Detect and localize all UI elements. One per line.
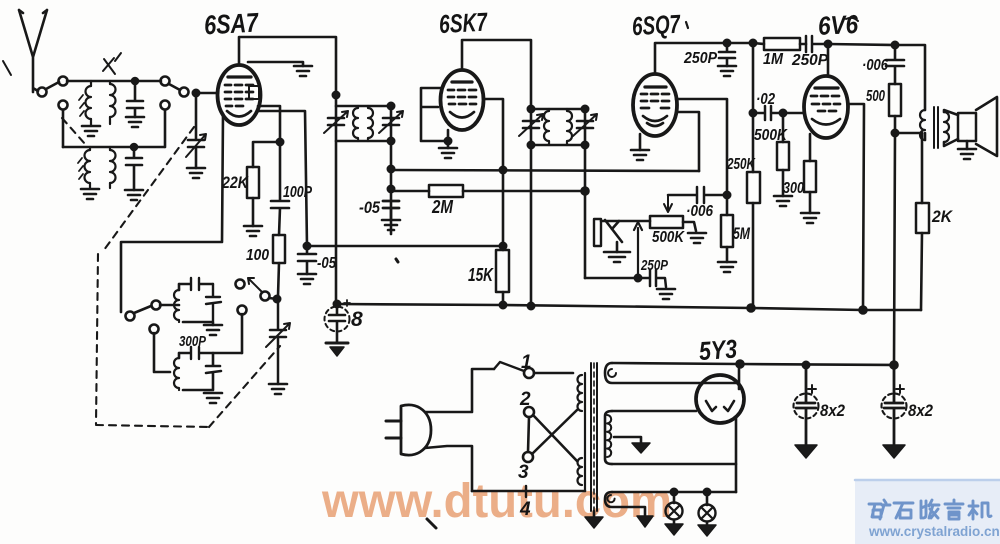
wire AVC line <box>391 170 699 171</box>
svg-text:250P: 250P <box>640 257 669 274</box>
resistor 300 cathode <box>801 134 819 223</box>
svg-text:6SA7: 6SA7 <box>203 7 260 40</box>
capacitor .05 AVC <box>298 243 316 284</box>
band terminals lower <box>59 101 170 148</box>
wire grid 6SA7 <box>196 92 218 95</box>
svg-text:8: 8 <box>351 308 363 331</box>
wire 6SK7 screen column <box>483 99 506 250</box>
6SK7 cathode ground <box>439 130 457 158</box>
capacitor 250P coupling <box>806 36 831 52</box>
logo chinese glyphs <box>869 500 991 519</box>
phase reverse switch <box>523 407 577 462</box>
crystalradio logo panel <box>855 479 1000 544</box>
wire 6V6 plate down <box>848 104 864 310</box>
svg-text:100: 100 <box>246 247 269 264</box>
capacitor 250P plate <box>718 40 736 76</box>
HV center tap ground <box>614 437 650 453</box>
osc tank 2 <box>150 325 243 404</box>
capacitor 250P volume <box>638 270 675 299</box>
wire grid return line <box>307 245 503 248</box>
svg-text:6V6: 6V6 <box>817 9 859 41</box>
svg-text:8x2: 8x2 <box>820 401 845 420</box>
capacitor .006 AVC <box>664 187 727 212</box>
antenna coil L1 <box>79 81 116 126</box>
wire 6SA7 plate to IF1 <box>239 37 336 95</box>
wire 5Y3 connections <box>736 364 739 492</box>
svg-text:300: 300 <box>783 180 804 197</box>
capacitor .05 IF1 <box>382 166 400 230</box>
6SK7 grid bracket <box>421 88 448 141</box>
ground screen 6SA7 <box>248 62 312 76</box>
transformer T4 core <box>591 363 597 511</box>
svg-text:250P: 250P <box>683 50 717 67</box>
wire primary bottom <box>472 486 585 497</box>
ground L2 <box>81 189 99 199</box>
scan tick marks <box>396 259 436 528</box>
dashed gang linkage <box>62 118 280 427</box>
resistor 250K column <box>747 40 760 308</box>
tube 6SQ7 <box>633 74 677 136</box>
wire 6SQ7 grid column <box>676 99 730 198</box>
svg-text:5M: 5M <box>733 224 751 243</box>
electrolytic 8x2 first <box>794 365 819 458</box>
svg-text:-05: -05 <box>359 198 380 217</box>
wire detector load <box>585 277 638 280</box>
svg-text:www.crystalradio.cn: www.crystalradio.cn <box>868 524 1000 539</box>
svg-text:300P: 300P <box>179 333 207 350</box>
6SA7 internals <box>225 77 259 117</box>
osc switch right <box>236 278 281 353</box>
resistor 15K <box>496 250 509 308</box>
svg-text:22K: 22K <box>221 173 249 192</box>
svg-text:250K: 250K <box>726 156 756 173</box>
output transformer T3 <box>920 107 958 148</box>
wire B+ rectifier column <box>891 133 898 369</box>
wire antenna rail 1 <box>67 80 161 83</box>
svg-text:500K: 500K <box>652 229 685 246</box>
electrolytic 8x2 second <box>882 365 907 458</box>
capacitor .006 tone <box>886 45 904 84</box>
pilot lamp 2 <box>698 492 716 536</box>
capacitor .02 <box>753 106 786 120</box>
transformer T4 primary <box>578 373 586 491</box>
svg-text:4: 4 <box>519 499 531 520</box>
wire 6SA7 cathode node <box>253 106 283 167</box>
svg-text:8x2: 8x2 <box>908 401 933 420</box>
wire 6V6 grid drop <box>783 44 828 113</box>
pilot lamp 1 <box>665 492 683 535</box>
resistor 5M <box>718 195 736 272</box>
svg-text:2M: 2M <box>431 197 454 217</box>
tuning capacitor CT1 <box>186 97 206 178</box>
svg-text:5Y3: 5Y3 <box>698 333 738 366</box>
ground L1 <box>82 126 100 136</box>
pilot lamp rail <box>612 489 736 495</box>
svg-text:250P: 250P <box>791 52 828 69</box>
main B+ bus <box>337 303 921 314</box>
svg-text:100P: 100P <box>283 184 312 201</box>
svg-text:www.dtutu.com: www.dtutu.com <box>321 475 672 528</box>
svg-text:-05: -05 <box>317 255 337 272</box>
wire 6SQ7 diode to AVC <box>677 112 699 171</box>
svg-text:1M: 1M <box>763 51 784 68</box>
electrolytic 8 <box>325 300 351 356</box>
pot wiper <box>634 222 642 281</box>
resistor 100 <box>273 235 285 296</box>
T4 secondary top winding <box>605 363 736 383</box>
osc band switch S2a <box>126 301 180 321</box>
IF transformer T1 <box>324 92 403 304</box>
osc tank 1 <box>174 278 222 335</box>
speaker <box>958 97 997 159</box>
6SK7 internals <box>448 82 476 118</box>
svg-text:1: 1 <box>521 352 532 373</box>
tube 6SA7 <box>218 65 261 125</box>
wire 6SK7 plate to IF2 <box>462 40 531 109</box>
svg-text:·006: ·006 <box>862 57 888 74</box>
capacitor C1 <box>126 78 144 127</box>
wire antenna rail 2 <box>63 146 164 149</box>
switch wafer mark <box>103 53 121 74</box>
wire 6SQ7 plate <box>655 43 753 74</box>
resistor 22K <box>244 167 262 236</box>
svg-text:6SQ7: 6SQ7 <box>631 9 682 42</box>
svg-text:500: 500 <box>866 88 885 105</box>
svg-text:500K: 500K <box>754 127 788 144</box>
band switch S1a <box>38 77 68 97</box>
resistor 500K grid <box>774 113 792 206</box>
6V6 internals <box>811 88 840 125</box>
tube 6SK7 <box>441 70 484 130</box>
resistor 500 <box>889 84 901 136</box>
antenna <box>3 10 47 92</box>
core ground <box>585 511 603 528</box>
wire 6SA7 g1 return <box>257 111 307 246</box>
wire osc grid <box>121 114 223 312</box>
svg-text:15K: 15K <box>468 265 495 285</box>
capacitor 100P <box>271 142 289 235</box>
svg-text:·006: ·006 <box>686 203 713 220</box>
svg-text:2K: 2K <box>931 207 954 226</box>
capacitor C2 <box>125 144 143 200</box>
volume pot 500K <box>650 216 706 243</box>
wire snubber node <box>895 132 922 135</box>
T4 HV winding <box>605 411 736 464</box>
svg-text:6SK7: 6SK7 <box>438 7 489 40</box>
tube 6V6 <box>804 76 848 138</box>
osc padder and ground column <box>266 299 290 394</box>
6SQ7 internals <box>641 87 669 126</box>
band switch S1b <box>161 77 200 97</box>
resistor 2K <box>916 133 929 310</box>
mains plug <box>386 405 431 455</box>
svg-text:3: 3 <box>518 462 529 483</box>
wire plug to switch <box>425 369 494 491</box>
wire filament rail <box>612 361 893 369</box>
phone jack <box>594 219 630 262</box>
6SQ7 cathode ground <box>631 134 649 160</box>
wire top B+ <box>828 44 925 110</box>
resistor 1M <box>753 38 806 50</box>
IF transformer T2 <box>519 106 597 305</box>
svg-text:·02: ·02 <box>756 91 775 108</box>
resistor 2M <box>391 185 589 197</box>
antenna coil L2 <box>78 147 116 189</box>
T4 heater winding <box>605 492 653 527</box>
tube 5Y3 <box>696 375 744 423</box>
svg-text:2: 2 <box>519 389 531 410</box>
power switch <box>494 362 573 378</box>
wire jack to pot <box>601 220 650 223</box>
